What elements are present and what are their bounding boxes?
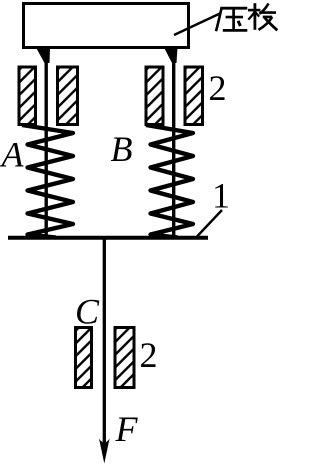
guide block 2 (top-left outer) [19,67,36,125]
svg-text:C: C [75,292,100,332]
guide block C (left) [76,328,92,388]
bottom bar 1 [8,236,208,240]
guide block C (right) [115,328,134,388]
guide block 2 (top-right inner) [146,67,163,125]
svg-text:B: B [111,129,133,169]
guide block 2 (top-left inner) [58,67,78,125]
spring B [146,125,193,238]
force arrow F head [99,439,110,464]
spring A [22,125,73,238]
left hanger wedge [36,48,50,64]
svg-text:A: A [0,135,25,175]
central rod / force arrow shaft [103,240,106,444]
svg-text:2: 2 [140,335,158,375]
left rod [45,48,48,238]
pressure plate (压板) [24,4,189,48]
leader line to 压板 label [174,13,221,35]
right hanger wedge [164,48,178,64]
svg-text:F: F [115,409,139,449]
guide block 2 (top-right outer) [185,67,203,125]
svg-text:1: 1 [212,176,230,216]
right rod [172,48,175,238]
leader line to label 1 [197,210,222,237]
label 压板 (drawn strokes) [216,3,277,31]
svg-text:2: 2 [209,68,227,108]
